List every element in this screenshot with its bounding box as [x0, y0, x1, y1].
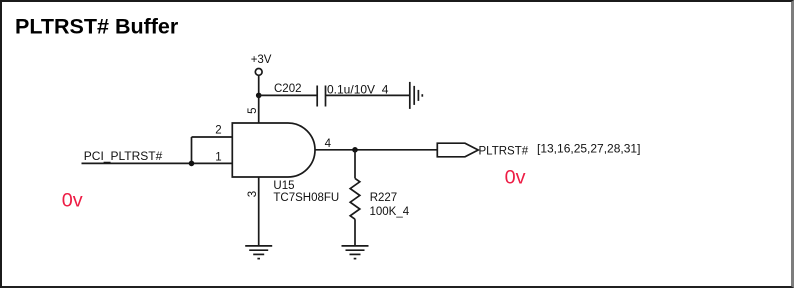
svg-text:PCI_PLTRST#: PCI_PLTRST# [84, 149, 163, 163]
pin 4 wire [315, 149, 437, 151]
power symbol +3V [251, 54, 272, 75]
svg-text:PLTRST# Buffer: PLTRST# Buffer [15, 15, 179, 39]
svg-text:0v: 0v [505, 167, 526, 189]
wire vertical pin2 to pin1 [191, 137, 193, 163]
wire +3V to rail node [258, 75, 260, 95]
svg-text:2: 2 [215, 124, 221, 136]
off-page connector PLTRST# [437, 143, 528, 157]
svg-text:+3V: +3V [251, 54, 272, 66]
svg-text:0v: 0v [62, 189, 83, 211]
capacitor C202 0.1u/10V_4 [274, 83, 389, 107]
svg-text:100K_4: 100K_4 [370, 206, 410, 218]
wire node to capacitor C202 [259, 94, 318, 96]
ground (R227) [342, 246, 369, 259]
svg-text:[13,16,25,27,28,31]: [13,16,25,27,28,31] [537, 141, 640, 155]
svg-text:4: 4 [325, 138, 332, 150]
svg-text:R227: R227 [370, 192, 398, 204]
pin 3 wire [258, 177, 260, 246]
AND gate U15 TC7SH08FU [232, 123, 339, 204]
ground (capacitor, sideways) [410, 82, 423, 109]
pin 2 stub [192, 136, 233, 138]
ground (pin 3) [245, 246, 272, 259]
svg-text:3: 3 [247, 191, 259, 197]
svg-text:C202: C202 [274, 83, 302, 95]
svg-text:1: 1 [215, 151, 221, 163]
wire PCI_PLTRST# to pin 1 [82, 162, 233, 164]
svg-text:0.1u/10V_4: 0.1u/10V_4 [327, 83, 389, 97]
resistor R227 100K_4 [350, 178, 410, 219]
svg-text:U15: U15 [273, 180, 294, 192]
svg-text:PLTRST#: PLTRST# [479, 146, 529, 158]
svg-text:TC7SH08FU: TC7SH08FU [273, 192, 339, 204]
node junction on +3V rail [256, 93, 262, 99]
node junction at pin 1 wire [189, 161, 195, 167]
pin 5 wire [258, 95, 260, 123]
wire resistor to ground [354, 219, 356, 246]
wire output node to resistor [354, 150, 356, 179]
wire capacitor to ground [326, 94, 410, 96]
node junction output [352, 147, 358, 153]
svg-text:5: 5 [247, 107, 259, 113]
